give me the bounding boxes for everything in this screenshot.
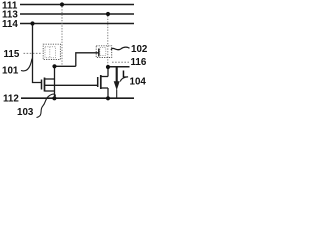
svg-text:101: 101 <box>2 65 19 76</box>
svg-text:L: L <box>122 69 129 81</box>
svg-text:115: 115 <box>4 49 20 60</box>
svg-text:104: 104 <box>130 76 147 87</box>
svg-text:103: 103 <box>17 107 34 118</box>
svg-text:102: 102 <box>131 44 148 55</box>
svg-text:112: 112 <box>3 94 19 105</box>
svg-text:116: 116 <box>131 57 147 68</box>
svg-text:114: 114 <box>2 19 18 30</box>
